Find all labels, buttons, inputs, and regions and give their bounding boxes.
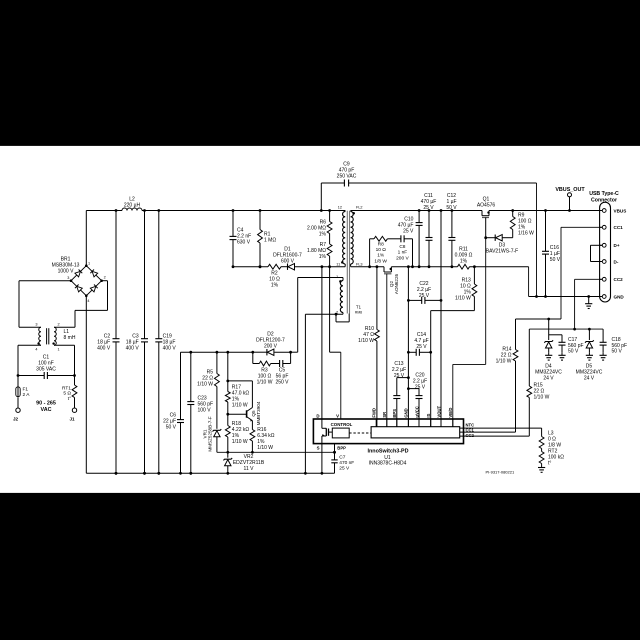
fuse F1 <box>16 387 20 397</box>
svg-text:50 V: 50 V <box>550 257 561 263</box>
svg-text:USB Type-C: USB Type-C <box>589 191 619 197</box>
zener D4 <box>548 319 550 340</box>
svg-text:600 V: 600 V <box>281 259 295 265</box>
transistor Q5 <box>246 410 248 417</box>
USB Type-C connector J3 <box>600 202 611 302</box>
output ground rail <box>529 296 603 298</box>
svg-text:V: V <box>336 413 339 418</box>
pin VBUS <box>602 209 606 213</box>
connector J2 <box>16 408 20 412</box>
svg-text:BPS: BPS <box>392 409 397 418</box>
svg-text:1%: 1% <box>377 253 385 259</box>
wire bias winding pin2 return <box>305 313 343 315</box>
resistor R16 <box>251 421 253 430</box>
wire C9 to top rail <box>320 183 322 211</box>
svg-text:C8: C8 <box>399 244 405 250</box>
svg-text:VAC: VAC <box>41 407 52 413</box>
svg-text:CC1: CC1 <box>466 428 475 433</box>
bridge rectifier BR1 <box>71 266 86 281</box>
transformer T1 core <box>346 211 348 314</box>
svg-text:12: 12 <box>338 206 342 210</box>
resistor R9 <box>512 211 514 217</box>
IC pin uVCC <box>418 419 420 427</box>
svg-text:11: 11 <box>336 263 340 267</box>
svg-text:RM8: RM8 <box>355 310 362 314</box>
capacitor C3 <box>144 211 146 339</box>
wire Q1 gate to VB/D pin <box>485 238 487 365</box>
svg-text:50 V: 50 V <box>166 425 177 431</box>
svg-text:1: 1 <box>58 348 60 352</box>
pin CC1 <box>602 225 606 229</box>
pin CC2 <box>602 277 606 281</box>
svg-text:t°: t° <box>548 461 551 467</box>
svg-text:1/10 W: 1/10 W <box>496 359 512 365</box>
resistor R7 <box>329 234 331 245</box>
svg-text:PI-9317-080221: PI-9317-080221 <box>486 469 515 474</box>
resistor R14 <box>515 319 517 350</box>
svg-text:VR1: VR1 <box>202 429 207 438</box>
svg-text:1/16 W: 1/16 W <box>518 231 534 237</box>
ground <box>588 297 590 304</box>
resistor R10 <box>376 267 378 330</box>
svg-text:400 V: 400 V <box>97 346 111 352</box>
svg-text:CONTROL: CONTROL <box>331 422 353 427</box>
svg-text:1 nF: 1 nF <box>398 250 408 256</box>
IC internal MOSFET <box>321 419 323 428</box>
svg-text:90 - 265: 90 - 265 <box>36 401 56 407</box>
svg-text:MMSZ5258B-7-F: MMSZ5258B-7-F <box>208 416 213 451</box>
svg-text:VBUS: VBUS <box>614 208 627 213</box>
zener VR2 <box>227 452 229 457</box>
resistor R17 <box>227 352 229 381</box>
wire L1 pin1 to C1 <box>54 344 75 346</box>
wire Q1 gate <box>485 218 487 238</box>
diode D3 <box>486 237 496 239</box>
svg-text:J1: J1 <box>69 417 75 422</box>
resistor R13 <box>473 267 475 284</box>
transformer T1 primary winding <box>343 212 346 265</box>
svg-text:1/10 W: 1/10 W <box>232 403 248 409</box>
wire Q2 gate to SR pin <box>386 274 388 427</box>
IC pin BPS <box>396 419 398 427</box>
capacitor C23 <box>190 352 192 401</box>
wire L1 pin3 to bridge <box>19 326 41 328</box>
svg-text:1%: 1% <box>460 259 468 265</box>
svg-text:MMBT3904: MMBT3904 <box>256 401 261 425</box>
svg-text:250 V: 250 V <box>275 380 289 386</box>
wire BR1 negative to bottom rail <box>85 296 87 474</box>
svg-text:GND: GND <box>404 408 409 417</box>
wire bias return to primary ground <box>304 314 306 473</box>
IC pin FWD <box>375 419 377 427</box>
svg-text:GND: GND <box>614 294 625 299</box>
inductor L2 <box>122 208 142 210</box>
ferrite bead L3 <box>539 437 544 449</box>
svg-text:400 V: 400 V <box>126 346 140 352</box>
svg-text:AO4576: AO4576 <box>477 203 496 209</box>
svg-text:50 V: 50 V <box>568 349 579 355</box>
svg-text:1/8 W: 1/8 W <box>374 258 387 264</box>
svg-text:1/10 W: 1/10 W <box>455 296 471 302</box>
svg-text:IS: IS <box>426 413 431 417</box>
svg-text:50 V: 50 V <box>612 349 623 355</box>
bias rail <box>181 351 253 353</box>
resistor R8 <box>370 238 374 240</box>
wire L1 pin4 to C1 <box>18 344 41 346</box>
top rail DC bus <box>86 210 122 212</box>
svg-text:25 V: 25 V <box>423 205 434 211</box>
svg-text:1: 1 <box>88 261 90 265</box>
wire bias winding pin1 to bias rail <box>298 277 343 279</box>
resistor R3 <box>252 352 254 363</box>
svg-text:3: 3 <box>67 276 69 280</box>
load switch MOSFET Q1 <box>481 211 483 216</box>
svg-text:25 V: 25 V <box>415 385 426 391</box>
bias regulator return rail <box>217 451 335 453</box>
zener D5 <box>588 329 590 340</box>
svg-text:CC2: CC2 <box>614 277 624 282</box>
capacitor C12 <box>451 211 453 238</box>
svg-text:1000 V: 1000 V <box>58 269 75 275</box>
svg-text:INN3878C-H8D4: INN3878C-H8D4 <box>369 460 407 466</box>
svg-text:100 V: 100 V <box>198 408 212 414</box>
svg-text:InnoSwitch3-PD: InnoSwitch3-PD <box>367 448 408 454</box>
secondary return rail <box>351 266 384 268</box>
svg-text:2: 2 <box>104 275 106 279</box>
sync-rect MOSFET Q2 <box>383 267 385 272</box>
svg-text:11 V: 11 V <box>244 466 255 472</box>
svg-text:J2: J2 <box>13 417 19 422</box>
connector J1 <box>72 408 76 412</box>
IC pin VB/D <box>452 419 454 427</box>
wire L1 pin2 to bridge <box>54 326 75 328</box>
svg-text:VOUT: VOUT <box>436 406 441 418</box>
svg-text:2 A: 2 A <box>23 392 31 398</box>
svg-text:1/10 W: 1/10 W <box>358 338 374 344</box>
capacitor C14 <box>408 351 416 353</box>
svg-text:1/10 W: 1/10 W <box>257 380 273 386</box>
capacitor C7 <box>331 459 337 461</box>
svg-text:220 µH: 220 µH <box>124 203 141 209</box>
wire F1 to C1 rail <box>17 376 19 388</box>
drain rail <box>233 266 268 268</box>
wire return rail to ground rail <box>528 267 530 297</box>
transformer T1 bias winding <box>340 281 343 313</box>
thermistor RT2 <box>541 449 543 452</box>
svg-text:C7: C7 <box>339 455 345 461</box>
IC pin GND <box>407 419 409 427</box>
capacitor C4 <box>232 211 234 237</box>
wire C9 to output ground <box>536 183 538 297</box>
svg-text:4: 4 <box>35 348 37 352</box>
IC U1 InnoSwitch3-PD outline <box>313 419 463 444</box>
primary ground rail <box>86 472 334 474</box>
svg-text:630 V: 630 V <box>237 240 251 246</box>
svg-text:SR: SR <box>382 412 387 418</box>
svg-text:FWD: FWD <box>372 408 377 418</box>
svg-text:D: D <box>316 413 319 418</box>
wire Q5 collector <box>228 380 253 382</box>
wire drain rail to IC drain pin <box>321 267 323 419</box>
svg-text:D+: D+ <box>614 243 620 248</box>
svg-text:1%: 1% <box>319 232 327 238</box>
svg-text:CC2: CC2 <box>466 433 475 438</box>
svg-text:1/10 W: 1/10 W <box>197 382 213 388</box>
wire R13 to IS pin <box>431 310 475 312</box>
resistor R1 <box>259 211 261 230</box>
capacitor C16 <box>545 211 547 252</box>
svg-text:25 V: 25 V <box>339 466 350 472</box>
svg-text:25 V: 25 V <box>403 229 414 235</box>
svg-text:4: 4 <box>87 299 89 303</box>
svg-text:BAV21WS-7-F: BAV21WS-7-F <box>486 249 518 255</box>
transformer T1 forward winding FL2-FL3 <box>351 212 354 265</box>
svg-text:Q2: Q2 <box>389 280 394 287</box>
secondary VBUS rail <box>351 210 482 212</box>
thermistor RT1 <box>72 385 77 398</box>
wire drain rail to IC V pin <box>329 267 331 353</box>
pin D+ <box>602 243 606 247</box>
svg-text:24 V: 24 V <box>543 376 554 382</box>
diode D2 <box>253 351 267 353</box>
svg-text:Connector: Connector <box>591 197 617 203</box>
svg-text:1/10 W: 1/10 W <box>232 439 248 445</box>
wire R14 to CC1 pin <box>460 431 516 433</box>
svg-text:RT1: RT1 <box>62 386 71 392</box>
svg-text:250 VAC: 250 VAC <box>337 174 357 180</box>
IC pin block <box>371 427 460 438</box>
capacitor C11 <box>428 211 430 238</box>
svg-text:D-: D- <box>614 259 619 264</box>
IC pin IS <box>430 419 432 427</box>
svg-text:50 V: 50 V <box>446 205 457 211</box>
svg-text:200 V: 200 V <box>396 255 409 261</box>
capacitor C6 <box>180 352 182 419</box>
common-mode choke L1 <box>39 327 41 345</box>
svg-text:24 V: 24 V <box>584 376 595 382</box>
resistor R18 <box>227 414 229 425</box>
svg-text:8 mH: 8 mH <box>64 335 76 341</box>
ground <box>541 466 543 468</box>
resistor R15 <box>528 329 530 386</box>
svg-text:25 V: 25 V <box>419 293 430 299</box>
svg-text:CC1: CC1 <box>614 225 624 230</box>
svg-text:2: 2 <box>58 323 60 327</box>
wire NTC route <box>460 427 542 429</box>
wire CC2 route <box>575 278 603 280</box>
svg-text:R8: R8 <box>378 242 384 248</box>
svg-text:t°: t° <box>68 396 71 402</box>
svg-text:VBUS_OUT: VBUS_OUT <box>555 187 585 193</box>
pin GND <box>602 295 606 299</box>
svg-text:T1: T1 <box>356 305 362 310</box>
current sense resistor R11 <box>458 264 470 269</box>
resistor R6 <box>329 211 331 222</box>
IC pin VOUT <box>440 419 442 427</box>
capacitor C5 <box>279 360 281 367</box>
svg-text:AON6226: AON6226 <box>394 273 399 294</box>
svg-text:1%: 1% <box>271 283 279 289</box>
svg-text:25 V: 25 V <box>416 344 427 350</box>
svg-text:5 Ω: 5 Ω <box>63 391 71 397</box>
svg-text:305 VAC: 305 VAC <box>36 367 56 373</box>
svg-text:1%: 1% <box>319 254 327 260</box>
svg-text:3: 3 <box>35 323 37 327</box>
zener VR1 <box>213 429 222 431</box>
svg-text:25 V: 25 V <box>394 373 405 379</box>
svg-text:1/10 W: 1/10 W <box>534 395 550 401</box>
resistor R5 <box>216 352 218 373</box>
wire VOUT sense <box>440 211 442 301</box>
svg-text:1/10 W: 1/10 W <box>257 445 273 451</box>
wire R15 to CC2 pin <box>460 435 530 437</box>
diode D1 <box>287 264 289 270</box>
svg-text:470 nF: 470 nF <box>339 460 354 466</box>
capacitor C13 <box>397 377 409 379</box>
svg-text:200 V: 200 V <box>264 344 278 350</box>
capacitor C8 <box>400 235 402 242</box>
svg-text:NTC: NTC <box>466 422 475 427</box>
svg-text:VB/D: VB/D <box>448 408 453 418</box>
pin D- <box>602 260 606 264</box>
svg-text:BPP: BPP <box>337 446 346 451</box>
capacitor C2 <box>115 211 117 339</box>
wire BR1 positive to top rail <box>85 211 87 266</box>
wire D+ D- link <box>591 244 603 246</box>
svg-text:FL3: FL3 <box>356 263 363 267</box>
wire CC1 route <box>561 226 602 228</box>
svg-text:10 Ω: 10 Ω <box>376 247 387 253</box>
capacitor C18 <box>602 329 604 342</box>
svg-text:400 V: 400 V <box>163 346 177 352</box>
svg-text:1 MΩ: 1 MΩ <box>264 238 276 244</box>
capacitor C17 <box>561 335 563 343</box>
capacitor C22 <box>408 299 421 301</box>
capacitor C10 <box>418 211 420 223</box>
capacitor C20 <box>408 388 419 390</box>
svg-text:FL2: FL2 <box>356 206 363 210</box>
capacitor C1 <box>18 375 44 377</box>
resistor R2 <box>268 264 281 269</box>
IC control dashed link <box>349 432 371 434</box>
IC pin SR <box>386 419 388 427</box>
svg-text:uVCC: uVCC <box>414 406 419 417</box>
svg-text:F1: F1 <box>23 387 29 393</box>
wire secondary ground to GND pin <box>407 267 409 427</box>
capacitor C19 <box>158 211 160 339</box>
capacitor C9 Y-cap <box>321 182 344 184</box>
svg-text:S: S <box>317 445 320 450</box>
